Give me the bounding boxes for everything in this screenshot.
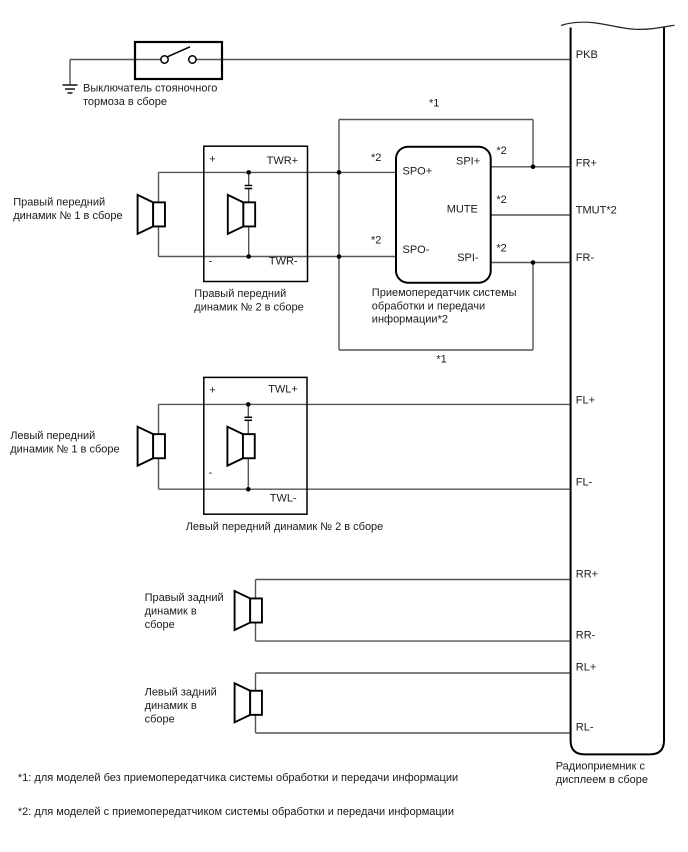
svg-text:*1: *1 xyxy=(436,353,446,365)
svg-text:Приемопередатчик системы: Приемопередатчик системы xyxy=(372,287,517,299)
svg-text:Правый передний: Правый передний xyxy=(13,197,105,209)
svg-text:тормоза в сборе: тормоза в сборе xyxy=(83,96,167,108)
svg-text:FL+: FL+ xyxy=(576,394,595,406)
svg-text:Левый передний динамик № 2 в с: Левый передний динамик № 2 в сборе xyxy=(186,521,384,533)
svg-text:*2: для моделей с приемопереда: *2: для моделей с приемопередатчиком сис… xyxy=(18,806,454,818)
svg-text:*2: *2 xyxy=(371,235,381,247)
svg-text:*2: *2 xyxy=(496,243,506,255)
svg-text:RR-: RR- xyxy=(576,630,596,642)
svg-text:SPI+: SPI+ xyxy=(456,156,480,168)
svg-text:FR-: FR- xyxy=(576,252,595,264)
svg-text:динамик № 1 в сборе: динамик № 1 в сборе xyxy=(10,444,119,456)
svg-text:TWL+: TWL+ xyxy=(268,383,298,395)
svg-text:-: - xyxy=(209,256,213,268)
svg-text:RR+: RR+ xyxy=(576,569,598,581)
svg-text:*1: для моделей без приемопере: *1: для моделей без приемопередатчика си… xyxy=(18,772,458,784)
svg-text:информации*2: информации*2 xyxy=(372,314,448,326)
svg-text:Левый задний: Левый задний xyxy=(145,687,217,699)
svg-text:SPO+: SPO+ xyxy=(403,166,433,178)
svg-text:Правый задний: Правый задний xyxy=(145,592,224,604)
svg-text:динамик № 1 в сборе: динамик № 1 в сборе xyxy=(13,210,122,222)
svg-text:сборе: сборе xyxy=(145,619,175,631)
svg-text:Радиоприемник с: Радиоприемник с xyxy=(556,761,646,773)
svg-text:*1: *1 xyxy=(429,97,439,109)
svg-text:TWL-: TWL- xyxy=(270,493,297,505)
svg-text:RL-: RL- xyxy=(576,722,594,734)
svg-text:динамик в: динамик в xyxy=(145,700,197,712)
svg-text:MUTE: MUTE xyxy=(447,204,478,216)
svg-text:обработки и передачи: обработки и передачи xyxy=(372,300,485,312)
svg-text:+: + xyxy=(209,153,215,165)
svg-text:Правый передний: Правый передний xyxy=(194,288,286,300)
svg-text:сборе: сборе xyxy=(145,714,175,726)
svg-text:динамик в: динамик в xyxy=(145,606,197,618)
svg-text:*2: *2 xyxy=(496,145,506,157)
svg-text:RL+: RL+ xyxy=(576,661,597,673)
svg-text:TWR-: TWR- xyxy=(269,256,298,268)
svg-text:FR+: FR+ xyxy=(576,157,597,169)
svg-text:-: - xyxy=(209,467,213,479)
svg-text:Выключатель стояночного: Выключатель стояночного xyxy=(83,83,217,95)
svg-text:SPI-: SPI- xyxy=(457,252,479,264)
svg-text:*2: *2 xyxy=(371,152,381,164)
svg-text:FL-: FL- xyxy=(576,477,593,489)
svg-text:*2: *2 xyxy=(496,194,506,206)
svg-text:TWR+: TWR+ xyxy=(267,155,298,167)
svg-text:дисплеем в сборе: дисплеем в сборе xyxy=(556,774,648,786)
svg-text:Левый передний: Левый передний xyxy=(10,430,95,442)
svg-text:PKB: PKB xyxy=(576,49,598,61)
svg-text:динамик № 2 в сборе: динамик № 2 в сборе xyxy=(194,302,303,314)
svg-text:TMUT*2: TMUT*2 xyxy=(576,204,617,216)
svg-text:SPO-: SPO- xyxy=(403,244,430,256)
svg-text:+: + xyxy=(209,385,215,397)
